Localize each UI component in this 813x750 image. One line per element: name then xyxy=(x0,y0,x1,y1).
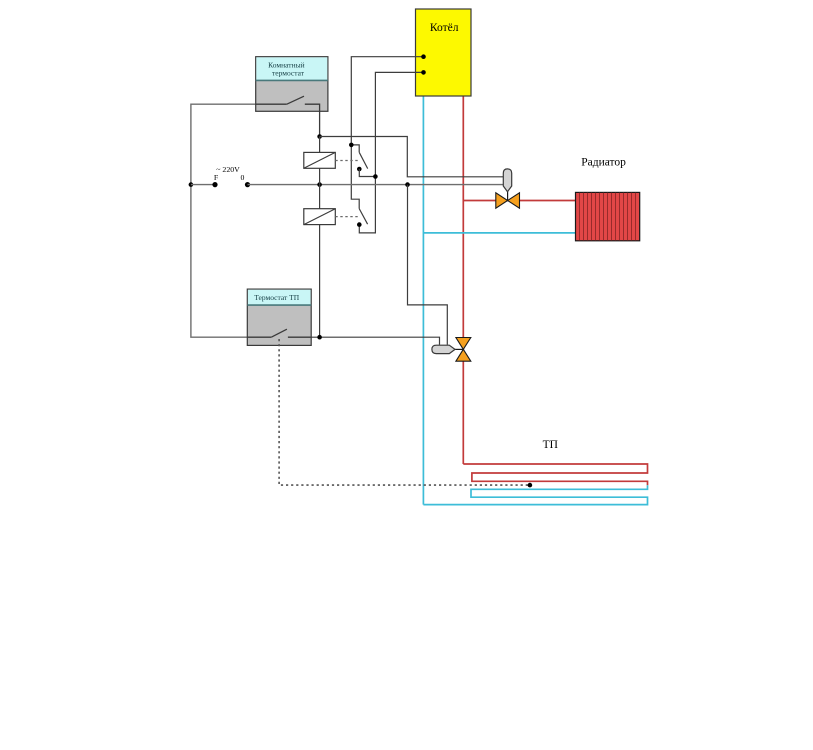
relay K1 coil xyxy=(304,152,336,168)
svg-text:ТП: ТП xyxy=(543,439,558,451)
contact K1 node dot xyxy=(349,143,354,148)
boiler supply pipe (cyan return riser) xyxy=(422,96,424,505)
radiator xyxy=(576,192,640,240)
floor heating serpentine red part xyxy=(463,464,647,485)
TP zone valve (orange) xyxy=(456,338,471,362)
TP sensor capillary (dashed) xyxy=(279,339,530,485)
svg-text:0: 0 xyxy=(241,173,245,182)
contact K2 blade xyxy=(359,209,367,225)
terminal 0 dot xyxy=(245,182,250,187)
radiator zone valve (orange) xyxy=(496,193,520,208)
wire relay column xyxy=(319,137,321,338)
contact K1 fixed contact dot xyxy=(357,167,362,172)
terminal F dot xyxy=(212,182,217,187)
radiator valve actuator capsule xyxy=(503,169,511,192)
radiator valve actuator stem xyxy=(507,192,509,201)
radiator flow pipe (red) xyxy=(463,200,575,202)
svg-text:Термостат ТП: Термостат ТП xyxy=(254,293,300,302)
wire radiator valve feed from room stat xyxy=(320,137,504,177)
room thermostat box xyxy=(256,57,328,112)
svg-text:термостат: термостат xyxy=(272,69,305,78)
svg-text:F: F xyxy=(214,173,219,182)
wire TP valve feed from neutral xyxy=(408,185,448,345)
TP valve actuator capsule xyxy=(432,345,455,353)
TP thermostat switch xyxy=(247,329,311,337)
contact K1 output wire xyxy=(359,169,375,177)
relay K2 coil xyxy=(304,209,336,225)
svg-text:~ 220V: ~ 220V xyxy=(216,165,240,174)
neutral line 0 xyxy=(248,184,504,186)
junction dot TP output / relay K2 xyxy=(317,335,322,340)
room thermostat switch xyxy=(256,96,320,136)
boiler terminal dot 1 xyxy=(421,54,426,59)
svg-text:Радиатор: Радиатор xyxy=(581,157,626,169)
left phase rail F xyxy=(191,104,256,337)
floor heating serpentine cyan part xyxy=(423,485,647,504)
TP thermostat box xyxy=(247,289,311,345)
rail junction dot xyxy=(189,182,194,187)
contact K1 common branch xyxy=(351,145,359,152)
boiler terminal dot 2 xyxy=(421,70,426,75)
TP sensor end dot xyxy=(528,483,533,488)
neutral junction dot at relay column xyxy=(317,182,322,187)
wire TP stat output to TP valve actuator xyxy=(311,337,439,345)
neutral junction dot at valve feed xyxy=(405,182,410,187)
boiler U1 xyxy=(416,9,472,96)
boiler flow pipe (red riser) xyxy=(462,96,464,464)
relay K2 mechanical link (dashed) xyxy=(335,216,359,218)
junction dot contact output to boiler wire 2 xyxy=(373,174,378,179)
svg-text:Котёл: Котёл xyxy=(430,22,459,34)
contact K2 fixed contact dot xyxy=(357,222,362,227)
wire boiler terminal 1 to relay contacts common xyxy=(351,57,423,209)
junction dot room stat output xyxy=(317,134,322,139)
wire rail to terminal F xyxy=(191,184,215,186)
relay K1 mechanical link (dashed) xyxy=(335,160,359,162)
radiator return pipe (cyan) xyxy=(423,232,575,234)
contact K1 blade xyxy=(359,152,368,168)
wire boiler terminal 2 riser xyxy=(359,72,423,233)
TP valve actuator link xyxy=(454,348,463,350)
